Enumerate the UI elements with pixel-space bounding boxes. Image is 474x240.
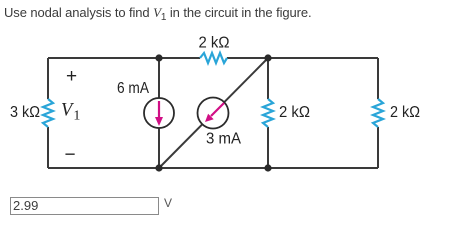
wire: left stub below 3k resistor — [47, 127, 49, 168]
node top-right junction — [264, 54, 271, 61]
answer input box — [10, 197, 159, 215]
wire: bottom — [48, 167, 378, 169]
node top-left junction — [155, 54, 162, 61]
svg-text:2 kΩ: 2 kΩ — [279, 104, 310, 121]
node bottom-left junction — [155, 164, 162, 171]
svg-text:−: − — [65, 145, 76, 166]
current source I1 6mA circle — [144, 98, 174, 128]
svg-text:2 kΩ: 2 kΩ — [390, 104, 420, 121]
resistor 3 kOhm (left) — [43, 99, 53, 127]
current source I2 3mA circle — [198, 98, 229, 129]
svg-text:+: + — [66, 66, 77, 87]
resistor 2 kOhm (right) — [373, 99, 383, 127]
svg-text:3 mA: 3 mA — [206, 131, 242, 148]
svg-text:6 mA: 6 mA — [117, 80, 150, 97]
current source I1 6mA arrow — [155, 101, 163, 126]
wire: diagonal branch for 3mA — [159, 58, 268, 168]
svg-text:V1: V1 — [61, 101, 80, 124]
wire: right stub below 2k resistor — [377, 127, 379, 168]
svg-text:2 kΩ: 2 kΩ — [199, 35, 230, 52]
svg-text:3 kΩ: 3 kΩ — [10, 104, 40, 121]
resistor 2 kOhm (top) — [200, 53, 227, 63]
wire: top left segment — [48, 57, 200, 59]
wire: middle stub below 2k resistor — [267, 127, 269, 168]
unit V label — [164, 196, 172, 210]
wire: 6mA branch — [158, 58, 160, 168]
wire: left stub above 3k resistor — [47, 58, 49, 99]
node bottom-right junction — [264, 164, 271, 171]
wire: middle stub above 2k resistor — [267, 58, 269, 99]
question text — [4, 5, 312, 21]
current source I2 3mA arrow — [205, 103, 224, 122]
resistor 2 kOhm (middle) — [263, 99, 273, 127]
wire: top right segment — [227, 57, 378, 59]
wire: right stub above 2k resistor — [377, 58, 379, 99]
